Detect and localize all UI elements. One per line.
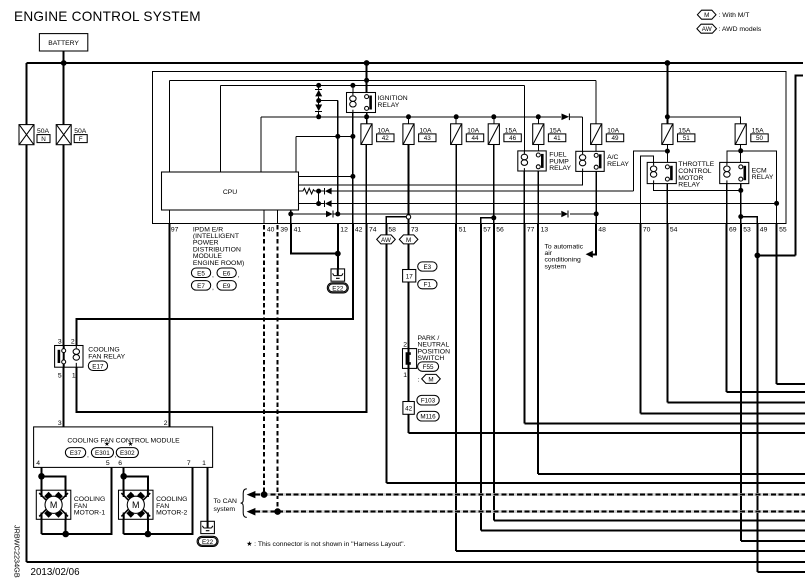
wire ignition coil top stub <box>352 85 354 92</box>
label to CAN system <box>214 498 238 513</box>
wire relay pin5 to module pin3 <box>63 367 65 427</box>
svg-text:ENGINE ROOM): ENGINE ROOM) <box>193 260 244 267</box>
junction fuse44 top <box>454 114 459 119</box>
svg-text:55: 55 <box>779 226 787 233</box>
svg-text:F1: F1 <box>424 282 432 289</box>
svg-text:F103: F103 <box>421 398 436 405</box>
cooling fan motor-2 <box>119 490 188 519</box>
wire module pin4 to motor1 <box>41 467 43 534</box>
svg-text:46: 46 <box>509 135 517 142</box>
svg-text:E22: E22 <box>332 286 344 293</box>
svg-text:BATTERY: BATTERY <box>48 40 79 47</box>
ground symbol E22 (IPDM) <box>331 269 345 281</box>
wire pin41 to ground jog <box>291 224 338 254</box>
svg-text:48: 48 <box>598 226 606 233</box>
wire pin51 exit right y=550.8 <box>456 550 805 552</box>
svg-text:E6: E6 <box>223 270 231 277</box>
wire pin54 down <box>666 224 668 403</box>
fuel pump relay <box>518 151 572 172</box>
park / neutral position switch S1 <box>403 335 451 379</box>
svg-text:56: 56 <box>496 226 504 233</box>
net fuse51/fuse50 feed y=116.8 <box>667 117 740 124</box>
connector E7 <box>191 281 214 292</box>
wire pin70 exit right y=413.4 <box>640 412 805 414</box>
variant node open circle on pin73 wire <box>406 215 410 219</box>
svg-text:COOLING FAN CONTROL MODULE: COOLING FAN CONTROL MODULE <box>67 438 180 445</box>
net fuse bus y=116.8 <box>261 116 582 118</box>
CAN-H dashed wire from pin40 <box>263 225 265 495</box>
connector E302 <box>116 448 138 458</box>
wire pin13 down <box>537 224 539 475</box>
fuse 10A 44 <box>451 124 484 145</box>
variant hexagon M on pin73 <box>399 235 418 244</box>
junction pin12 on y=214 <box>335 212 340 217</box>
junction bus/fuse51-50 feed <box>665 60 671 66</box>
junction motor2 bottom <box>145 531 152 538</box>
connector M116 <box>417 411 439 421</box>
svg-text:E9: E9 <box>223 283 231 290</box>
fuse 50A F <box>56 125 87 145</box>
svg-text:3: 3 <box>58 339 62 346</box>
junction bridge y=203.6 <box>316 201 321 206</box>
wire pin57 down <box>480 224 482 531</box>
svg-text:M: M <box>406 237 411 244</box>
cooling fan relay E17 <box>55 339 126 380</box>
svg-text:43: 43 <box>424 135 432 142</box>
net CPU to ignition coil low: horizontal y=136.4 <box>296 135 353 137</box>
junction pin41 on y=214 <box>288 212 293 217</box>
wire fuse51 output dogleg to CPU resistor net <box>634 151 668 191</box>
wire pin48 to A/C system arrow <box>593 224 596 255</box>
svg-text:42: 42 <box>355 226 363 233</box>
CPU box <box>162 172 299 210</box>
inline connector box 42 <box>403 402 414 415</box>
junction CAN-L <box>274 508 281 515</box>
svg-text:10A: 10A <box>377 127 390 134</box>
junction module pin6 branch <box>120 473 127 480</box>
diode on y=214 pointing right near pin48 <box>561 211 568 218</box>
svg-text:77: 77 <box>527 226 535 233</box>
junction pin55 drop on CPU diode net <box>774 201 779 206</box>
svg-text:15A: 15A <box>549 127 562 134</box>
wire pin77 exit right y=423.4 <box>524 422 805 424</box>
svg-text:RELAY: RELAY <box>678 182 700 189</box>
svg-text:★ : This connector is not show: ★ : This connector is not shown in "Harn… <box>246 540 405 548</box>
wire CPU feed drop x=169.5 <box>169 80 171 172</box>
junction coil bottom on y=136.4 <box>350 134 355 139</box>
wire CPU bottom to pin41 <box>290 210 292 224</box>
svg-text:97: 97 <box>171 226 179 233</box>
svg-text:E22: E22 <box>202 539 214 546</box>
svg-text:49: 49 <box>760 226 768 233</box>
svg-text:74: 74 <box>369 226 377 233</box>
ignition relay U1 <box>347 93 408 113</box>
junction diode bottom on bus <box>316 114 321 119</box>
diode on y=214 pointing right near CPU <box>326 211 333 218</box>
wire pin56 exit right y=520.4 <box>494 519 805 521</box>
wire fuse46 to pin56 <box>493 145 495 224</box>
junction diode line at pin48 <box>594 211 599 216</box>
wire fuse N down left side to bottom <box>26 145 28 562</box>
junction fuse41 top <box>536 114 541 119</box>
connector F1 <box>418 280 437 289</box>
svg-text:E301: E301 <box>95 450 110 457</box>
wire A/C coil bottom to CPU net y=184.8 <box>299 171 583 184</box>
legend M hexagon : With M/T <box>697 10 749 19</box>
wire CPU tap x=220.3 <box>219 85 221 172</box>
junction CPU feed on ignition drop <box>364 78 369 83</box>
svg-text:39: 39 <box>280 226 288 233</box>
wire fuel pump relay coil feed x=524.4 <box>523 85 525 150</box>
svg-text:1: 1 <box>403 372 407 379</box>
svg-text:42: 42 <box>405 405 413 412</box>
junction fuse46/pin57 jog <box>491 215 496 220</box>
svg-text:10A: 10A <box>607 127 620 134</box>
diode on y=191.1 pointing left <box>324 188 326 195</box>
wire bottom bus to right edge <box>27 561 806 563</box>
svg-text:54: 54 <box>670 226 678 233</box>
svg-text:58: 58 <box>388 226 396 233</box>
A/C relay <box>576 151 630 171</box>
svg-text:42: 42 <box>382 135 390 142</box>
svg-text:49: 49 <box>611 135 619 142</box>
junction module pin4 branch <box>38 473 45 480</box>
junction motor1 bottom <box>62 531 69 538</box>
connector E6 <box>217 268 240 279</box>
svg-text:MOTOR-2: MOTOR-2 <box>156 510 187 517</box>
diode on y=203.6 pointing left <box>324 200 326 207</box>
fuse 15A 41 <box>533 124 566 145</box>
wire bus drop to fuse51 x=667.4 <box>666 63 668 124</box>
svg-text:6: 6 <box>118 460 122 467</box>
svg-text:F55: F55 <box>423 364 434 371</box>
wire motor2 bottom to module pin7 <box>124 467 193 534</box>
wire ignition switch output to fuse bus <box>366 113 368 124</box>
svg-text:M: M <box>132 500 140 510</box>
svg-text:57: 57 <box>483 226 491 233</box>
svg-text:51: 51 <box>459 226 467 233</box>
IPDM E/R box <box>152 72 786 224</box>
wire exit top right x=795.3 <box>795 75 803 255</box>
svg-text:RELAY: RELAY <box>549 165 571 172</box>
svg-text:50: 50 <box>756 135 764 142</box>
junction pin12 net on y=136.4 <box>335 134 340 139</box>
svg-text:69: 69 <box>729 226 737 233</box>
wire fuse50 to ECM switch <box>740 145 742 163</box>
wire pin58 exit right y=483.1 <box>386 482 805 484</box>
cooling fan motor-1 <box>36 490 105 519</box>
junction diode mid <box>316 98 321 103</box>
wire A/C switch to pin48 <box>595 171 597 223</box>
svg-text:4: 4 <box>36 460 40 467</box>
svg-text:M116: M116 <box>420 414 436 421</box>
junction fuse51 output <box>665 149 670 154</box>
ECM relay <box>720 162 774 183</box>
cooling fan control module box <box>34 420 213 467</box>
svg-text:: With M/T: : With M/T <box>719 12 750 19</box>
svg-text:10A: 10A <box>419 127 432 134</box>
svg-text:F: F <box>79 136 83 143</box>
svg-text:RELAY: RELAY <box>378 102 400 109</box>
wire pin51 down <box>455 224 457 551</box>
wire module pin6 to motor2 <box>123 467 125 534</box>
wire ignition coil bottom to net 136.4 and pin42 x=352.8 <box>352 113 354 224</box>
fuse 15A 51 <box>662 124 695 145</box>
svg-text:E302: E302 <box>120 450 135 457</box>
battery bus wire <box>27 62 803 64</box>
wire pin73 down through connectors <box>408 224 410 434</box>
svg-text::: : <box>418 377 420 384</box>
svg-text:N: N <box>41 136 46 143</box>
diode D1 up <box>315 88 322 90</box>
svg-text:15A: 15A <box>505 127 518 134</box>
junction fuse50 output <box>738 148 743 153</box>
wire fuse42 to pin74 <box>365 145 367 224</box>
wire bus drop to ignition relay <box>366 63 368 93</box>
net CPU to ignition coil / fuel pump coil: horizontal y=85.4 <box>220 84 524 86</box>
wire ECM coil to pin69 <box>726 184 728 224</box>
svg-text:SWITCH: SWITCH <box>418 355 445 362</box>
wire pin57 exit right y=530.5 <box>481 530 805 532</box>
wire fuel pump coil to pin77 <box>523 171 525 224</box>
junction bus/ignition feed <box>364 60 370 66</box>
junction y=176.4 on pin42 wire <box>350 174 355 179</box>
wire pin13 exit right y=474.2 <box>538 473 805 475</box>
wire pin12 to ground <box>337 224 339 269</box>
wire pin55 exit right y=384 <box>777 383 805 385</box>
wire IPDM pin97 to module pin2 <box>169 224 171 427</box>
svg-text:50A: 50A <box>37 128 50 135</box>
wire bus to fuse41 <box>537 117 539 124</box>
wire pin69 down <box>726 224 728 392</box>
throttle control motor relay <box>647 161 714 188</box>
fuse 10A 43 <box>403 124 436 145</box>
CAN-L dashed wire from pin39 <box>277 225 279 512</box>
svg-text:★: ★ <box>104 441 110 448</box>
junction diode top <box>316 83 321 88</box>
connector E17 <box>88 361 107 371</box>
svg-text:,: , <box>212 272 214 279</box>
svg-text:★: ★ <box>128 441 134 448</box>
resistor R on y=191.1 <box>303 188 315 194</box>
wire ECM switch to pin53 <box>740 184 742 224</box>
svg-text:1: 1 <box>72 373 76 380</box>
svg-text:2: 2 <box>403 342 407 349</box>
svg-text:44: 44 <box>471 135 479 142</box>
svg-text:,: , <box>212 285 214 292</box>
svg-text:system: system <box>214 506 236 513</box>
svg-text:2: 2 <box>71 339 75 346</box>
connector F103 <box>417 395 439 405</box>
svg-text:M: M <box>704 12 709 19</box>
wire pin55 down <box>776 224 778 385</box>
variant hexagon M for switch <box>418 374 441 383</box>
wire module pin1 to ground <box>207 467 209 521</box>
IPDM E/R label block <box>193 226 244 266</box>
svg-text:50A: 50A <box>74 128 87 135</box>
wire diode chain x=318.7 <box>318 85 320 116</box>
svg-text:E37: E37 <box>70 450 82 457</box>
wire motor1 branch <box>42 476 66 534</box>
connector E9 <box>217 281 236 291</box>
svg-text:E7: E7 <box>197 283 205 290</box>
wire pin74 to cooling fan relay coil low <box>76 224 366 413</box>
wire fuse50 feed corner to pin55 drop <box>741 151 777 224</box>
connector E22 (IPDM ground) <box>327 283 348 293</box>
svg-text:,: , <box>87 452 89 459</box>
wire CPU bottom to pin97 <box>169 210 171 224</box>
wire fuse43 to pin73 <box>408 145 410 224</box>
wire connector42 exit right y=433.2 <box>409 432 806 434</box>
svg-text:M: M <box>428 376 433 383</box>
junction pin49 branch <box>755 253 761 259</box>
wire pin58 jog <box>386 217 406 224</box>
wire pin53 exit right y=541 <box>741 540 805 542</box>
wire pin77 down <box>523 224 525 424</box>
svg-text:73: 73 <box>411 226 419 233</box>
svg-text:M: M <box>50 500 58 510</box>
connector E22 (module ground) <box>197 536 218 546</box>
connector E37 <box>65 448 89 459</box>
svg-text:,: , <box>238 272 240 279</box>
wire bridge x=318.6 <box>318 191 320 204</box>
svg-text:41: 41 <box>554 135 562 142</box>
fuse 15A 46 <box>488 124 521 145</box>
svg-text:E17: E17 <box>92 363 104 370</box>
net CPU diode line y=203.6 to pin55 <box>299 203 777 205</box>
wire motor1 bottom to module pin5 <box>42 467 112 534</box>
arrow to automatic air conditioning system <box>586 251 593 258</box>
svg-text:10A: 10A <box>467 127 480 134</box>
svg-text:51: 51 <box>683 135 691 142</box>
CAN-H horizontal dashed wire <box>250 493 805 496</box>
wire pin53 down <box>740 224 742 542</box>
svg-text:JRBWC2234GB: JRBWC2234GB <box>13 525 22 578</box>
fuse 10A 42 <box>361 124 394 145</box>
wire fuse49 to A/C relay switch <box>595 145 597 152</box>
net CPU resistor line y=191.1 <box>299 190 634 192</box>
junction ign coil top <box>350 83 355 88</box>
CAN-L horizontal dashed wire <box>250 510 805 513</box>
wire bus to fuse43 <box>408 117 410 124</box>
CAN brace <box>241 489 247 518</box>
inline connector box 17 <box>403 270 416 283</box>
connector E5 <box>191 268 214 279</box>
svg-text:CPU: CPU <box>223 189 237 196</box>
wire bus down to fuse N <box>26 63 28 125</box>
connector E301 <box>91 448 116 459</box>
svg-text:ENGINE CONTROL SYSTEM: ENGINE CONTROL SYSTEM <box>14 9 201 24</box>
svg-text:13: 13 <box>541 226 549 233</box>
junction resistor/bridge y=191.1 <box>316 189 321 194</box>
label to automatic air conditioning system <box>545 243 584 270</box>
svg-text:RELAY: RELAY <box>607 161 629 168</box>
wire pin49 down <box>756 224 758 572</box>
wire fuse F to cooling fan relay pin 3 <box>63 145 65 346</box>
svg-text:3: 3 <box>58 420 62 427</box>
net diode line y=214 pin41 to pin48 <box>291 213 596 215</box>
wire pin42 to cooling fan relay coil <box>76 224 353 346</box>
wire CPU tap x=261.1 <box>260 117 262 172</box>
battery <box>39 34 87 51</box>
svg-text:AW: AW <box>381 237 391 244</box>
wire bus to fuse44 <box>455 117 457 124</box>
wire battery to bus <box>63 51 65 63</box>
svg-text:5: 5 <box>58 373 62 380</box>
svg-text:12: 12 <box>340 226 348 233</box>
wire throttle coil top jog to pin70 <box>640 156 653 223</box>
svg-text:system: system <box>545 263 567 270</box>
CAN-L arrow <box>247 508 256 516</box>
wire diode mid to pin12 net x=337.8 <box>319 100 338 102</box>
svg-text:2013/02/06: 2013/02/06 <box>31 567 81 578</box>
svg-text:: AWD models: : AWD models <box>719 26 762 33</box>
wire CPU bottom CAN-H to pin40 <box>263 210 265 224</box>
wire pin54 exit right y=402.6 <box>667 402 805 404</box>
junction ignition output on bus <box>364 114 369 119</box>
svg-text:5: 5 <box>106 460 110 467</box>
fuse 50A N <box>19 125 50 145</box>
connector E3 <box>418 262 437 271</box>
svg-text:RELAY: RELAY <box>752 174 774 181</box>
svg-text:53: 53 <box>743 226 751 233</box>
svg-text:41: 41 <box>294 226 302 233</box>
net CPU right y=176.4 to pin42 wire <box>299 175 353 177</box>
svg-text:17: 17 <box>406 274 414 281</box>
junction ECM switch / pin49 stub <box>738 214 743 219</box>
wire fuse51 to junction y=151.1 <box>666 145 668 163</box>
wire pin56 down <box>493 224 495 521</box>
svg-text:7: 7 <box>187 460 191 467</box>
fuse 10A 49 <box>591 124 624 145</box>
wire battery down to fuse F <box>63 63 65 125</box>
svg-text:1: 1 <box>202 460 206 467</box>
svg-text:AW: AW <box>702 26 712 33</box>
wire fuse50 feed corner to ECM coil <box>727 151 741 163</box>
junction battery/bus <box>61 60 67 66</box>
variant hexagon AW on pin58 <box>377 235 396 244</box>
wire pin49 exit right y=571.9 <box>757 571 805 573</box>
wire motor2 branch <box>124 476 148 534</box>
junction pin41/pin12 ground <box>335 251 341 257</box>
wire ECM switch stub to pin49 <box>741 217 758 224</box>
junction feed at fuse51 <box>665 114 670 119</box>
diode on fuse bus <box>562 114 570 121</box>
svg-text:E3: E3 <box>423 264 431 271</box>
junction fuse46 top <box>491 114 496 119</box>
svg-text:70: 70 <box>643 226 651 233</box>
wire pin70 down <box>639 224 641 414</box>
ground symbol E22 (module) <box>201 521 215 533</box>
wire pin58 down <box>385 224 387 484</box>
svg-text:2: 2 <box>164 420 168 427</box>
wire fuel pump switch to pin13 <box>537 171 539 224</box>
wire fuse49 feed drop x=596.2 <box>595 80 597 124</box>
svg-text:40: 40 <box>267 226 275 233</box>
wire jog to pin57 <box>481 218 494 224</box>
wire bus to A/C relay coil x=582.6 <box>582 117 584 152</box>
fuse 15A 50 <box>735 124 768 145</box>
svg-text:To CAN: To CAN <box>214 498 238 505</box>
junction CAN-H <box>261 491 268 498</box>
wire pin69 exit right y=391.8 <box>727 391 805 393</box>
junction fuse43 top <box>406 114 411 119</box>
wire CPU bottom CAN-L to pin39 <box>277 210 279 224</box>
wire fuse41 to fuel pump relay switch <box>537 145 539 151</box>
CAN-H arrow <box>247 491 256 498</box>
wire fuse44 to pin51 <box>455 145 457 224</box>
junction ECM switch / throttle coil net <box>738 188 743 193</box>
